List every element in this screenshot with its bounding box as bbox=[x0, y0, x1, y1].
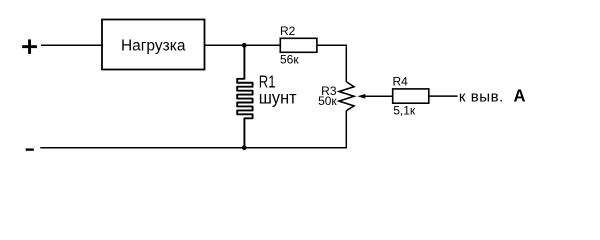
svg-text:R4: R4 bbox=[393, 74, 409, 88]
svg-text:50к: 50к bbox=[318, 94, 337, 108]
svg-text:Нагрузка: Нагрузка bbox=[121, 38, 186, 55]
svg-text:А: А bbox=[514, 85, 526, 105]
svg-text:к выв.: к выв. bbox=[459, 89, 504, 106]
svg-text:56к: 56к bbox=[280, 53, 299, 67]
svg-text:5,1к: 5,1к bbox=[393, 104, 416, 118]
svg-text:шунт: шунт bbox=[259, 87, 297, 107]
svg-text:R2: R2 bbox=[280, 24, 296, 38]
